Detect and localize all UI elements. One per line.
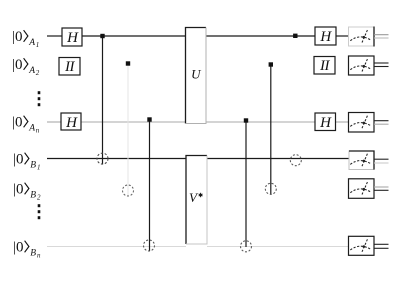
svg-text:|0: |0 [12, 29, 23, 45]
svg-text:A: A [28, 38, 35, 48]
svg-text:n: n [36, 126, 40, 134]
svg-text:H: H [65, 115, 78, 131]
svg-text:U: U [191, 67, 202, 82]
svg-text:H: H [319, 29, 332, 45]
svg-text:|0: |0 [12, 57, 23, 73]
svg-text:|0: |0 [12, 115, 23, 131]
svg-text:2: 2 [37, 193, 41, 201]
svg-text:H: H [66, 30, 79, 46]
svg-text:2: 2 [36, 69, 40, 77]
svg-text:|0: |0 [13, 182, 24, 198]
svg-text:A: A [28, 123, 35, 133]
svg-text:n: n [37, 251, 41, 259]
svg-text:II: II [64, 59, 75, 75]
svg-text:B: B [30, 190, 36, 200]
svg-text:B: B [30, 248, 36, 258]
svg-text:H: H [319, 115, 332, 131]
svg-text:1: 1 [36, 41, 40, 49]
svg-text:1: 1 [37, 163, 41, 171]
svg-text:A: A [28, 66, 35, 76]
svg-text:II: II [319, 58, 330, 74]
svg-text:|0: |0 [13, 152, 24, 168]
svg-text:|0: |0 [13, 240, 24, 256]
svg-text:B: B [30, 160, 36, 170]
